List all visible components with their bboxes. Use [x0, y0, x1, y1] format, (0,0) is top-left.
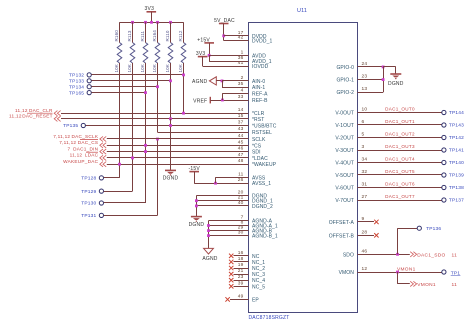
svg-text:23: 23 — [238, 274, 244, 280]
svg-text:OFFSET-A: OFFSET-A — [329, 220, 355, 226]
svg-text:DAC1_OUT0: DAC1_OUT0 — [385, 107, 415, 112]
svg-text:GPIO-1: GPIO-1 — [336, 78, 354, 84]
wire +15V stem — [209, 43, 211, 55]
svg-text:VREF: VREF — [193, 98, 207, 104]
svg-text:V-7OUT: V-7OUT — [335, 198, 354, 204]
wire R110 bottom lead — [170, 63, 172, 119]
test point TP131 — [99, 213, 103, 217]
junction DAC1_DIN tap — [144, 150, 147, 153]
svg-text:DAC1_SDO: DAC1_SDO — [417, 253, 445, 259]
svg-text:AIN-1: AIN-1 — [252, 85, 265, 91]
svg-text:AGND: AGND — [202, 256, 217, 262]
svg-text:AGND: AGND — [192, 79, 207, 85]
junction TP133 — [169, 79, 172, 82]
wire TP129 — [104, 191, 133, 193]
wire AVSS — [216, 177, 249, 179]
test point TP143 — [442, 123, 446, 127]
test point TP144 — [442, 110, 446, 114]
wire R164 top lead — [157, 22, 159, 42]
wire TP128 — [104, 177, 120, 179]
svg-text:TP1: TP1 — [451, 271, 461, 277]
svg-text:DGND: DGND — [189, 222, 205, 228]
svg-text:11: 11 — [238, 171, 244, 177]
wire AVSS_1 — [194, 183, 248, 185]
wire NC pin 23 stub — [234, 280, 249, 282]
wire AIN-0 from AGND — [216, 80, 222, 82]
svg-text:U11: U11 — [297, 8, 307, 14]
wire GPIO-1 — [358, 79, 384, 81]
svg-text:45: 45 — [238, 139, 244, 145]
svg-text:TP137: TP137 — [449, 198, 464, 204]
junction VMON — [396, 271, 399, 274]
svg-text:34: 34 — [362, 157, 368, 163]
wire DGND pin20 — [196, 195, 248, 197]
junction rail col2 — [131, 21, 134, 24]
wire R113 top lead — [132, 22, 134, 42]
no-connect X pin 18 — [229, 260, 233, 264]
off-page connector DAC1_SDO — [410, 252, 416, 257]
wire AIN-0 — [222, 80, 249, 82]
wire DAC1_OUT0 — [358, 112, 442, 114]
wire R111 top lead — [145, 22, 147, 42]
test point TP132 — [87, 73, 91, 77]
svg-text:27: 27 — [362, 194, 368, 200]
junction TP134 — [156, 85, 159, 88]
wire R160 bottom lead — [119, 63, 121, 178]
svg-text:3V3: 3V3 — [145, 6, 155, 12]
svg-text:49: 49 — [238, 293, 244, 299]
svg-text:46: 46 — [362, 248, 368, 254]
svg-text:7: 7 — [67, 146, 70, 151]
wire EP stub — [230, 299, 249, 301]
wire OFFSET-B stub — [358, 235, 375, 237]
wire DAC1_OUT7 — [358, 200, 442, 202]
svg-text:TP139: TP139 — [449, 173, 464, 179]
junction DAC_CLR pull-up — [182, 112, 185, 115]
junction USB/BTC tie — [169, 124, 172, 127]
svg-text:NC_4: NC_4 — [252, 278, 265, 284]
svg-text:46: 46 — [238, 146, 244, 152]
no-connect X pin 39 — [229, 284, 233, 288]
svg-text:TP142: TP142 — [449, 135, 464, 141]
ground DGND (signal tie) — [165, 169, 176, 171]
svg-text:DGND: DGND — [163, 176, 179, 182]
junction SDO — [396, 253, 399, 256]
svg-text:11,12: 11,12 — [15, 108, 28, 113]
wire TP130 — [104, 202, 146, 204]
junction DAC_RESET pull-up — [169, 117, 172, 120]
svg-text:11,12: 11,12 — [70, 153, 83, 158]
wire DAC1_DIN — [107, 151, 249, 153]
wire RSTSEL — [158, 132, 249, 134]
wire VMON branch — [397, 272, 399, 284]
wire NC pin 39 stub — [234, 286, 249, 288]
junction WAKEUP pull-up — [118, 163, 121, 166]
test point TP133 — [87, 79, 91, 83]
test point TP136 — [417, 226, 421, 230]
wire R113 bottom lead — [132, 63, 134, 191]
svg-text:7,11,12: 7,11,12 — [59, 140, 76, 145]
svg-text:31: 31 — [362, 182, 368, 188]
wire DVDD_1 — [224, 40, 249, 42]
svg-text:DAC1_OUT2: DAC1_OUT2 — [385, 132, 415, 137]
off-page connector WAKEUP_DAC — [100, 162, 106, 167]
IC U11 DAC8718SRGZT body — [249, 23, 358, 313]
svg-text:V-4OUT: V-4OUT — [335, 161, 354, 167]
wire -15V stem — [194, 172, 196, 184]
resistor R111 10K — [143, 43, 148, 64]
wire 3V3 stem 2 — [202, 57, 204, 67]
svg-text:VMON1: VMON1 — [397, 267, 416, 273]
wire AGND-B_1 — [209, 235, 249, 237]
svg-text:LDAC: LDAC — [85, 153, 99, 158]
svg-text:TP138: TP138 — [449, 185, 464, 191]
junction AIN-0 — [221, 80, 224, 83]
svg-text:*RST: *RST — [252, 117, 264, 123]
no-connect X pin 19 — [229, 266, 233, 270]
svg-text:TP134: TP134 — [69, 84, 84, 90]
wire TP134 — [92, 86, 158, 88]
resistor R160 10K — [117, 43, 122, 64]
svg-text:R110: R110 — [165, 30, 170, 41]
wire DAC1_OUT1 — [358, 124, 442, 126]
test point TP1 — [442, 270, 446, 274]
svg-text:43: 43 — [238, 126, 244, 132]
wire AVDD riser — [209, 55, 211, 61]
test point TP140 — [442, 160, 446, 164]
wire DAC_CLR — [61, 113, 249, 115]
junction DGND_2 — [195, 205, 198, 208]
overline LDAC — [86, 151, 98, 153]
svg-text:37: 37 — [238, 120, 244, 126]
no-connect X pin 21 — [229, 272, 233, 276]
svg-text:DAC_SCLK: DAC_SCLK — [72, 134, 99, 139]
wire R111 bottom lead — [145, 63, 147, 203]
svg-text:EP: EP — [252, 297, 259, 303]
svg-text:NC_3: NC_3 — [252, 272, 265, 278]
svg-text:10K: 10K — [178, 63, 183, 72]
svg-text:14: 14 — [238, 107, 244, 113]
svg-text:WAKEUP_DAC: WAKEUP_DAC — [63, 159, 99, 164]
svg-text:VMON1: VMON1 — [417, 282, 436, 288]
junction AGND-B_1 — [207, 234, 210, 237]
svg-text:26: 26 — [238, 177, 244, 183]
svg-text:AIN-0: AIN-0 — [252, 79, 265, 85]
wire TP165 — [92, 92, 146, 94]
svg-text:16: 16 — [238, 250, 244, 256]
overline DAC_RESET — [27, 112, 53, 114]
svg-text:R160: R160 — [114, 30, 119, 42]
svg-text:5: 5 — [362, 132, 365, 138]
junction AGND-A_1 — [207, 224, 210, 227]
svg-text:13: 13 — [362, 86, 368, 92]
svg-text:TP136: TP136 — [426, 226, 441, 232]
svg-text:19: 19 — [238, 262, 244, 268]
svg-text:NC: NC — [252, 254, 260, 260]
wire TP131 riser — [157, 139, 159, 215]
wire GPIO-2 — [358, 92, 384, 94]
wire DAC_SCLK — [107, 138, 249, 140]
svg-text:20: 20 — [238, 190, 244, 196]
junction DVDD — [222, 34, 225, 37]
junction AGND-B — [207, 229, 210, 232]
wire NC pin 18 stub — [234, 261, 249, 263]
svg-text:TP131: TP131 — [81, 213, 96, 219]
junction AVDD — [208, 54, 211, 57]
wire SDO to TP136 — [397, 228, 399, 254]
svg-text:TP133: TP133 — [69, 79, 84, 85]
wire DGND pull-down stem — [170, 119, 172, 170]
svg-text:DAC1_OUT7: DAC1_OUT7 — [385, 194, 415, 199]
test point TP141 — [442, 148, 446, 152]
svg-text:AGND-B_1: AGND-B_1 — [252, 234, 278, 240]
wire GPIO bus — [383, 67, 385, 92]
wire DAC1_OUT6 — [358, 187, 442, 189]
test point TP129 — [99, 189, 103, 193]
junction LDAC pull-up — [131, 157, 134, 160]
test point TP130 — [99, 201, 103, 205]
svg-text:11: 11 — [452, 282, 458, 288]
svg-text:4: 4 — [241, 87, 244, 93]
wire TP136 — [398, 228, 418, 230]
no-connect X pin 16 — [229, 254, 233, 258]
svg-text:*CS: *CS — [252, 143, 262, 149]
wire TP132 — [92, 74, 184, 76]
svg-text:R164: R164 — [152, 30, 157, 42]
resistor R164 10K — [155, 43, 160, 64]
svg-text:DAC8718SRGZT: DAC8718SRGZT — [249, 315, 290, 321]
svg-text:TP141: TP141 — [449, 148, 464, 154]
no-connect X OFFSET-B — [374, 233, 378, 237]
svg-text:SDI: SDI — [252, 150, 261, 156]
svg-text:GPIO-0: GPIO-0 — [336, 65, 354, 71]
svg-text:V-0OUT: V-0OUT — [335, 111, 354, 117]
svg-text:*USB/BTC: *USB/BTC — [252, 124, 277, 130]
wire AGND stem — [208, 221, 210, 249]
junction REF — [221, 99, 224, 102]
resistor R110 10K — [168, 43, 173, 64]
svg-text:TP130: TP130 — [81, 201, 96, 207]
svg-text:10K: 10K — [165, 63, 170, 72]
svg-text:V-5OUT: V-5OUT — [335, 173, 354, 179]
junction 3V3 tap — [150, 21, 153, 24]
junction SCLK / TP131 — [156, 138, 159, 141]
svg-text:11,12: 11,12 — [9, 114, 22, 119]
overline DAC_CS — [80, 139, 98, 141]
svg-text:RSTSEL: RSTSEL — [252, 130, 272, 136]
svg-text:DAC1_OUT5: DAC1_OUT5 — [385, 169, 415, 174]
wire DGND pin21 — [196, 200, 248, 202]
svg-text:DAC_CS: DAC_CS — [78, 140, 99, 145]
off-page connector DAC_RESET — [54, 116, 60, 121]
off-page connector VMON1 — [410, 281, 416, 286]
wire DGND stem 2 — [196, 196, 198, 217]
wire DAC1_OUT2 — [358, 137, 442, 139]
wire R112 top lead — [183, 22, 185, 42]
svg-text:NC_5: NC_5 — [252, 284, 265, 290]
wire DGND pin40 — [196, 205, 248, 207]
svg-text:TP129: TP129 — [81, 189, 96, 195]
ground DGND (chip) — [191, 216, 202, 218]
junction GPIO-0 — [382, 66, 385, 69]
svg-text:V-3OUT: V-3OUT — [335, 148, 354, 154]
svg-text:12: 12 — [362, 266, 368, 272]
svg-text:IOVDD: IOVDD — [252, 64, 269, 70]
wire GPIO to ground — [383, 66, 396, 68]
wire LDAC — [107, 157, 249, 159]
resistor R113 10K — [130, 43, 135, 64]
wire DAC_RESET — [61, 118, 249, 120]
svg-text:OFFSET-B: OFFSET-B — [329, 233, 355, 239]
svg-text:DVDD_1: DVDD_1 — [252, 39, 272, 45]
wire AGND-A — [209, 220, 249, 222]
svg-text:10K: 10K — [140, 63, 145, 72]
svg-text:SCLK: SCLK — [252, 137, 266, 143]
wire R110 top lead — [170, 22, 172, 42]
svg-text:SDO: SDO — [343, 252, 354, 258]
svg-text:DAC1_OUT4: DAC1_OUT4 — [385, 157, 415, 162]
svg-text:DAC_RESET: DAC_RESET — [22, 114, 52, 119]
svg-text:TP165: TP165 — [69, 90, 84, 96]
off-page connector DAC1_DIN — [100, 149, 106, 154]
ground DGND (GPIO) — [390, 73, 401, 75]
wire GPIO-0 — [358, 66, 384, 68]
svg-text:TP144: TP144 — [449, 110, 464, 116]
junction rail col5 — [169, 21, 172, 24]
wire NC pin 19 stub — [234, 268, 249, 270]
svg-text:AVSS_1: AVSS_1 — [252, 181, 271, 187]
wire AIN riser — [222, 81, 224, 87]
wire IOVDD — [203, 66, 249, 68]
svg-text:V-6OUT: V-6OUT — [335, 186, 354, 192]
svg-text:TP135: TP135 — [63, 123, 78, 129]
wire REF-A — [222, 93, 248, 95]
svg-text:39: 39 — [238, 280, 244, 286]
resistor R112 10K — [181, 43, 186, 64]
wire AGND-B — [209, 230, 249, 232]
wire WAKEUP_DAC — [107, 164, 249, 166]
wire REF riser — [222, 93, 224, 100]
junction rail col4 — [156, 21, 159, 24]
svg-text:TP128: TP128 — [81, 176, 96, 182]
off-page connector DAC_CS — [100, 143, 106, 148]
junction GPIO-1 — [382, 78, 385, 81]
wire 3V3 stem — [151, 12, 153, 22]
wire NC pin 16 stub — [234, 255, 249, 257]
no-connect X OFFSET-A — [374, 220, 378, 224]
wire GPIO ground stem — [395, 67, 397, 74]
off-page connector DAC_CLR — [54, 111, 60, 116]
test point TP137 — [442, 198, 446, 202]
svg-text:DGND: DGND — [388, 81, 404, 87]
wire VMON — [358, 272, 442, 274]
svg-text:48: 48 — [238, 158, 244, 164]
svg-text:3: 3 — [362, 144, 365, 150]
no-connect X pin 23 — [229, 278, 233, 282]
svg-text:V-2OUT: V-2OUT — [335, 136, 354, 142]
wire DAC1_OUT3 — [358, 150, 442, 152]
wire 5V_DAC stem — [223, 24, 225, 41]
svg-text:R113: R113 — [127, 30, 132, 41]
svg-text:1: 1 — [241, 49, 244, 55]
svg-text:TP143: TP143 — [449, 123, 464, 129]
no-connect X pin 49 EP — [225, 297, 229, 301]
ground AGND (triangle) — [204, 248, 214, 254]
wire TP131 — [104, 215, 158, 217]
wire USB/BTC — [86, 125, 249, 127]
junction TP132 — [182, 74, 185, 77]
wire DAC_CS — [107, 145, 249, 147]
svg-text:DAC1_DIN: DAC1_DIN — [73, 146, 98, 151]
svg-text:DAC_CLR: DAC_CLR — [29, 108, 53, 113]
junction rail col3 — [144, 21, 147, 24]
svg-text:11: 11 — [452, 253, 458, 259]
svg-text:DAC1_OUT6: DAC1_OUT6 — [385, 182, 415, 187]
svg-text:10: 10 — [362, 107, 368, 113]
svg-text:28: 28 — [362, 229, 368, 235]
off-page connector LDAC — [100, 155, 106, 160]
test point TP134 — [87, 85, 91, 89]
wire AVDD — [209, 55, 248, 57]
svg-text:NC_2: NC_2 — [252, 266, 265, 272]
svg-text:TP140: TP140 — [449, 160, 464, 166]
wire NC pin 21 stub — [234, 274, 249, 276]
wire 3V3 rail — [120, 22, 184, 24]
svg-text:10K: 10K — [114, 63, 119, 72]
wire DAC1_OUT5 — [358, 174, 442, 176]
svg-text:REF-A: REF-A — [252, 91, 268, 97]
test point TP138 — [442, 185, 446, 189]
test point TP165 — [87, 91, 91, 95]
svg-text:V-1OUT: V-1OUT — [335, 123, 354, 129]
svg-text:DGND_2: DGND_2 — [252, 204, 273, 210]
test point TP135 — [81, 123, 85, 127]
svg-text:GPIO-2: GPIO-2 — [336, 90, 354, 96]
test point TP142 — [442, 135, 446, 139]
test point TP139 — [442, 173, 446, 177]
svg-text:23: 23 — [362, 74, 368, 80]
wire REF-B — [210, 100, 248, 102]
wire R164 bottom lead — [157, 63, 159, 132]
wire SDO — [358, 254, 410, 256]
svg-text:35: 35 — [238, 81, 244, 87]
wire AIN-1 — [222, 87, 249, 89]
wire DVDD — [224, 35, 249, 37]
svg-text:VMON: VMON — [339, 270, 355, 276]
svg-text:R111: R111 — [140, 30, 145, 41]
wire DAC1_OUT4 — [358, 162, 442, 164]
wire OFFSET-A stub — [358, 221, 375, 223]
test point TP128 — [99, 176, 103, 180]
wire R160 top lead — [119, 22, 121, 42]
junction DAC_CS pull-up — [144, 144, 147, 147]
wire AVSS riser — [215, 177, 217, 183]
wire AGND-A_1 — [209, 225, 249, 227]
svg-text:*LDAC: *LDAC — [252, 156, 268, 162]
wire R112 bottom lead — [183, 63, 185, 113]
junction TP165 — [144, 91, 147, 94]
off-page connector DAC_SCLK — [100, 136, 106, 141]
wire VMON to off-page — [398, 283, 410, 285]
wire TP133 — [92, 80, 171, 82]
svg-text:*WAKEUP: *WAKEUP — [252, 162, 277, 168]
svg-text:DAC1_OUT3: DAC1_OUT3 — [385, 144, 415, 149]
svg-text:R112: R112 — [178, 30, 183, 41]
svg-text:33: 33 — [238, 94, 244, 100]
svg-text:DAC1_OUT1: DAC1_OUT1 — [385, 119, 415, 124]
junction DGND_1 — [195, 199, 198, 202]
svg-text:7,11,12: 7,11,12 — [53, 134, 70, 139]
